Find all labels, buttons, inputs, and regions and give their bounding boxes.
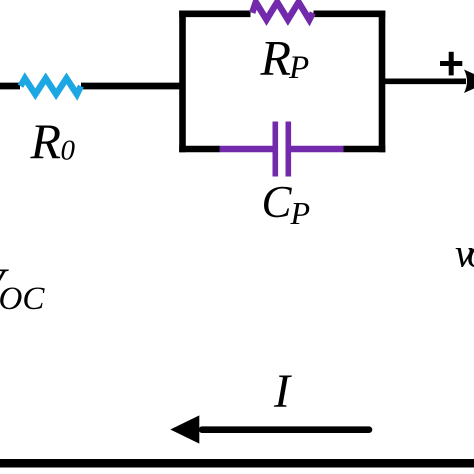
svg-text:C: C [262, 177, 293, 227]
svg-text:0: 0 [61, 134, 76, 166]
svg-text:R: R [30, 113, 62, 169]
svg-text:OC: OC [0, 281, 45, 317]
svg-text:P: P [288, 50, 309, 86]
svg-text:o: o [467, 231, 474, 276]
svg-text:P: P [290, 195, 311, 231]
svg-text:I: I [273, 365, 292, 418]
svg-text:R: R [260, 30, 292, 86]
